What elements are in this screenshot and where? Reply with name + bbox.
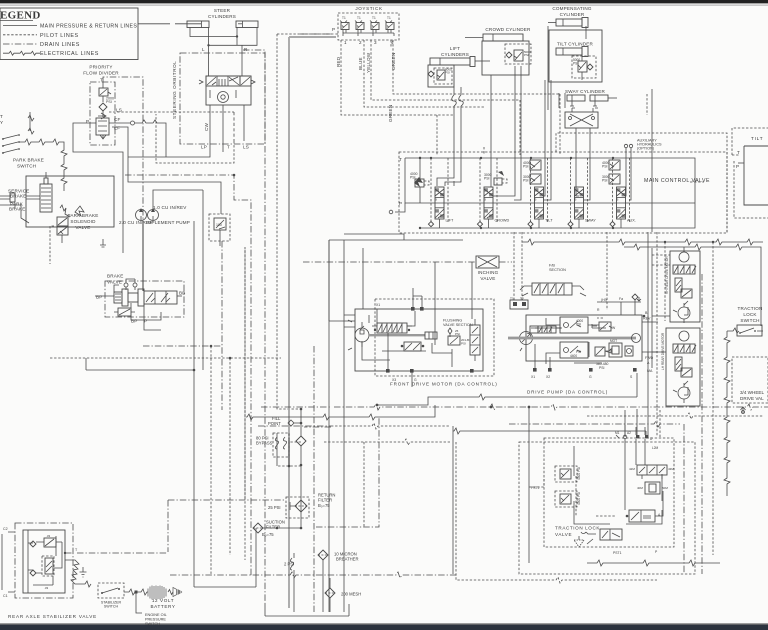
crowd cylinder label: [485, 27, 531, 32]
svg-text:P: P: [144, 319, 147, 324]
svg-text:REAR AXLE STABILIZER VALVE: REAR AXLE STABILIZER VALVE: [8, 614, 97, 619]
svg-text:TILT CYLINDER: TILT CYLINDER: [557, 42, 594, 47]
steer cylinders label: [208, 8, 236, 19]
tilt lock solid box: [734, 146, 768, 218]
node LS: [98, 108, 122, 120]
LH motor top circle: [679, 331, 689, 341]
svg-text:LIFT: LIFT: [446, 219, 454, 223]
pilot wire blue: [364, 40, 484, 107]
svg-text:MAIN CONTROL VALVE: MAIN CONTROL VALVE: [644, 178, 710, 184]
implement pump labels: [119, 205, 190, 225]
traction top ports: [615, 431, 659, 450]
inching valve: [476, 256, 499, 281]
svg-text:P: P: [399, 201, 402, 206]
svg-text:CF: CF: [114, 117, 121, 122]
svg-text:SWITCH: SWITCH: [145, 622, 160, 626]
svg-text:SWITCH: SWITCH: [104, 605, 119, 609]
engine oil pressure switch: [136, 594, 167, 627]
compensating cyl wire: [548, 26, 586, 110]
svg-text:DRIVE VAL: DRIVE VAL: [740, 396, 764, 401]
svg-text:GREEN: GREEN: [388, 105, 393, 122]
svg-text:T1: T1: [387, 16, 391, 20]
svg-text:T1: T1: [372, 16, 376, 20]
vertical dashed x222 x211 x230: [211, 241, 245, 575]
pump internal wires: [535, 317, 606, 368]
joystick internal manifold: [300, 27, 394, 36]
svg-text:X3: X3: [392, 378, 396, 382]
PST1 P labels: [613, 550, 658, 555]
svg-text:CW: CW: [204, 122, 209, 131]
MCV spool SWAY: [568, 158, 596, 228]
priority flow divider dashed box: [90, 82, 115, 145]
T rail: [405, 157, 695, 203]
drain arrow: [100, 239, 106, 247]
solid wire x529 down: [490, 406, 531, 563]
svg-text:A2: A2: [627, 431, 631, 435]
sway lock valve X box: [565, 108, 598, 200]
lift cylinder: [430, 57, 490, 67]
lift lock valve box: [428, 65, 454, 87]
drive pump solid box: [526, 315, 642, 361]
long dashdot wire y425 right: [509, 421, 684, 574]
pump to brake valve main line: [142, 221, 144, 291]
3/4 wheel drive valve dashed box: [732, 357, 768, 414]
wires into tank: [276, 433, 291, 529]
svg-text:PRIORITY: PRIORITY: [89, 65, 112, 70]
wire pump suction bottom: [194, 528, 256, 587]
traction strainer triangle: [574, 536, 584, 547]
wire T down from orbitrol: [125, 114, 251, 250]
brake valve label: [107, 274, 124, 285]
P rail: [389, 158, 695, 214]
priority flow divider label: [83, 65, 119, 76]
compensating cylinder: [548, 18, 588, 28]
svg-text:B: B: [484, 198, 486, 202]
service brake label: [8, 189, 29, 199]
park brake solenoid valve label: [67, 213, 98, 230]
svg-text:Fa: Fa: [619, 297, 623, 301]
legend pilot line: [3, 34, 37, 36]
electrical horizontals under MCV: [522, 239, 763, 245]
svg-text:SWITCH: SWITCH: [17, 164, 36, 169]
flushing valve box: [448, 336, 471, 346]
stabilizer solid box: [23, 530, 65, 593]
svg-text:VALVE: VALVE: [480, 276, 495, 281]
wire EF down: [112, 127, 221, 246]
dashed wires right of pump: [657, 232, 713, 574]
drive pump shaft: [508, 334, 641, 343]
stabilizer T wire dashdot: [64, 552, 168, 554]
legend drain line: [3, 43, 37, 45]
pilot wire red: [341, 40, 454, 115]
return filter: [268, 493, 335, 519]
tilt cylinder: [556, 47, 588, 57]
svg-text:BB: BB: [179, 291, 186, 296]
stub wires top of traction area: [616, 410, 660, 438]
wire steer R down: [241, 45, 243, 76]
legend electrical line: [3, 51, 40, 55]
wire CF solid right: [109, 120, 166, 157]
svg-text:YELLOW: YELLOW: [366, 52, 371, 73]
pump top labels: [597, 294, 641, 315]
tilt pair to MCV: [544, 80, 552, 200]
svg-text:PSI: PSI: [106, 100, 112, 104]
svg-text:CROWD: CROWD: [495, 219, 510, 223]
bottom black bar: [0, 623, 768, 630]
svg-text:MAIN PRESSURE & RETURN LINES: MAIN PRESSURE & RETURN LINES: [40, 24, 137, 30]
front drive motor dashed box: [375, 299, 494, 376]
wires into front motor left: [329, 240, 355, 327]
svg-text:VALVE SECTION: VALVE SECTION: [443, 323, 473, 327]
svg-text:TILT: TILT: [751, 136, 763, 141]
wire P left: [73, 123, 123, 253]
dashed wire x364: [363, 442, 365, 527]
svg-text:T: T: [100, 78, 103, 83]
svg-text:4500 PSI: 4500 PSI: [577, 467, 581, 480]
pilot color labels: [336, 52, 396, 73]
long dash wire y416: [587, 413, 763, 419]
compensating cylinder label: [552, 6, 592, 17]
LH rear drive motor box: [661, 328, 700, 406]
wire motor top: [413, 262, 472, 345]
drive pump circle: [520, 331, 533, 351]
svg-text:T: T: [399, 157, 402, 162]
implement pump circles: [136, 190, 204, 221]
traction inner dashed box: [544, 438, 674, 547]
svg-text:DRIVE PUMP (DA CONTROL): DRIVE PUMP (DA CONTROL): [527, 390, 608, 395]
svg-text:X1: X1: [531, 375, 535, 379]
tilt cylinder label: [557, 42, 594, 47]
electrical wire from switch: [19, 139, 67, 191]
svg-text:BRAKE: BRAKE: [9, 207, 26, 212]
svg-text:PRESSURE: PRESSURE: [145, 618, 166, 622]
svg-text:PILOT LINES: PILOT LINES: [40, 33, 79, 39]
traction relief 2: [555, 491, 581, 507]
traction relief 1: [555, 466, 581, 482]
sway cylinders: [567, 95, 617, 108]
svg-text:BATTERY: BATTERY: [151, 604, 176, 609]
vertical solid x194 x203: [194, 190, 203, 587]
F/B section spool: [520, 283, 586, 296]
RH motor spool: [673, 265, 696, 274]
svg-text:STEERING ORBITROL: STEERING ORBITROL: [172, 61, 177, 119]
svg-text:4400: 4400: [570, 354, 577, 358]
svg-text:X2: X2: [546, 375, 550, 379]
svg-text:P: P: [332, 27, 335, 32]
svg-text:TRACTION: TRACTION: [737, 306, 762, 311]
svg-text:LIFT: LIFT: [450, 46, 460, 51]
MCV inlet relief 4000psi: [410, 157, 429, 229]
svg-text:RH REAR DRIVE MOTOR: RH REAR DRIVE MOTOR: [665, 256, 669, 294]
relief valve 2000 PSI: [99, 88, 114, 104]
RH rear drive motor box: [665, 251, 700, 322]
pump servo spool: [530, 326, 562, 333]
svg-text:EGEND: EGEND: [0, 10, 41, 22]
svg-text:FLOW DIVIDER: FLOW DIVIDER: [83, 71, 119, 76]
svg-text:STEER: STEER: [214, 8, 231, 13]
orifice component right of pump: [209, 214, 230, 241]
C2 C1 labels: [2, 527, 15, 598]
svg-text:M1: M1: [615, 431, 620, 435]
tilt comp valve dashed box: [572, 56, 596, 80]
crowd cylinder: [465, 34, 523, 41]
svg-text:40M: 40M: [637, 486, 643, 490]
joystick label: [355, 6, 383, 11]
svg-text:VALVE: VALVE: [107, 280, 122, 285]
svg-text:100: 100: [216, 223, 222, 227]
svg-text:TRACTION LOCK: TRACTION LOCK: [555, 526, 600, 531]
svg-text:4: 4: [391, 40, 394, 45]
horizontal dashdot y346: [143, 345, 222, 348]
svg-text:T: T: [737, 150, 740, 155]
F/B section label: [549, 264, 566, 273]
stabilizer wire to switch electrical: [65, 560, 91, 587]
legend main pressure line: [3, 25, 37, 27]
svg-text:L2M: L2M: [652, 446, 659, 450]
svg-text:50M: 50M: [662, 486, 668, 490]
joystick T drain lines: [243, 50, 265, 604]
svg-text:PSI: PSI: [576, 322, 581, 326]
front motor main spool: [372, 323, 412, 333]
MCV label: [644, 178, 710, 184]
green pilot label 2: [388, 105, 393, 122]
svg-text:RED: RED: [336, 56, 341, 67]
MCV crowd compensator: [484, 171, 507, 185]
electrical wire top: [28, 112, 34, 134]
dashdot wire y427 left: [258, 425, 331, 427]
auxiliary hydraulics label: [624, 139, 662, 201]
svg-text:VALVE: VALVE: [75, 225, 90, 230]
joystick dashed box: [338, 13, 399, 40]
long dashed wire y442: [324, 439, 657, 583]
svg-text:P: P: [736, 164, 739, 169]
electrical horizontal second: [624, 244, 761, 326]
flushing relief: [448, 328, 460, 337]
solid wire y417: [246, 405, 435, 420]
svg-text:EF: EF: [114, 126, 120, 131]
svg-text:BRAKE: BRAKE: [10, 194, 27, 199]
MCV spool AUX.: [610, 158, 636, 228]
traction lock valve label: [555, 526, 600, 538]
front drive motor label: [390, 382, 498, 387]
svg-text:.33: .33: [46, 534, 51, 538]
park brake switch: [13, 158, 44, 169]
svg-text:PSI: PSI: [461, 342, 466, 346]
MCV tilt compensators: [523, 160, 541, 184]
svg-text:PSI: PSI: [455, 332, 460, 336]
stabilizer dashdot box: [15, 523, 73, 598]
svg-text:R: R: [244, 47, 248, 52]
battery: [124, 586, 182, 610]
node L R labels: [202, 47, 248, 52]
traction internal wires: [574, 439, 662, 524]
front motor circle: [348, 320, 369, 350]
steering orbitrol dashed box: [172, 53, 265, 144]
svg-text:CYLINDER: CYLINDER: [560, 12, 585, 17]
stabilizer switch: [98, 583, 124, 609]
svg-text:PSI: PSI: [523, 179, 529, 183]
svg-text:ENGINE OIL: ENGINE OIL: [145, 613, 167, 617]
vertical drain dashdot x314: [313, 346, 315, 612]
traction solenoid valve: [626, 491, 663, 522]
wire elec to solenoid: [60, 205, 84, 217]
T label: [75, 548, 78, 552]
brake valve dash-dot box: [105, 281, 184, 317]
svg-text:SOLENOID: SOLENOID: [70, 219, 96, 224]
svg-text:.33: .33: [44, 586, 49, 590]
svg-text:B₀=75: B₀=75: [262, 532, 274, 537]
svg-text:B: B: [435, 198, 437, 202]
pump bottom ports: [531, 368, 637, 379]
tank: [265, 604, 349, 616]
horizontal solid y370: [86, 358, 195, 371]
solid wire y426: [331, 423, 646, 574]
front motor bottom ports: [386, 369, 474, 382]
svg-text:T: T: [227, 145, 230, 150]
svg-text:BYPASS: BYPASS: [256, 441, 273, 446]
joystick valve 4: [385, 16, 394, 33]
solid wire y405-397 step: [377, 373, 637, 405]
breather: [318, 550, 359, 612]
pump relief 4400 bottom: [560, 342, 588, 358]
svg-text:CYLINDERS: CYLINDERS: [441, 52, 469, 57]
check diamond top: [296, 408, 306, 529]
2 psi: [284, 553, 294, 612]
svg-text:PARK BRAKE: PARK BRAKE: [13, 158, 44, 163]
svg-text:25 PSI: 25 PSI: [268, 505, 281, 510]
svg-text:JOYSTICK: JOYSTICK: [355, 6, 383, 11]
vertical solid wires mid: [329, 240, 363, 612]
svg-text:TILT: TILT: [545, 219, 553, 223]
svg-text:C2: C2: [3, 527, 8, 531]
svg-text:SWAY CYLINDER: SWAY CYLINDER: [565, 89, 606, 94]
svg-text:LH REAR DRIVE MOTOR: LH REAR DRIVE MOTOR: [661, 332, 665, 370]
svg-text:SWAY: SWAY: [585, 219, 596, 223]
legend box: [0, 8, 138, 60]
joystick port numbers: [344, 40, 394, 45]
orbitrol port lines down: [210, 105, 244, 141]
switch contacts: [2, 134, 20, 154]
svg-text:L: L: [202, 47, 205, 52]
svg-text:G: G: [589, 375, 592, 379]
svg-text:1: 1: [344, 40, 347, 45]
svg-text:200 MESH: 200 MESH: [341, 592, 361, 597]
long dashdot wire y407: [261, 404, 768, 410]
svg-text:42M: 42M: [629, 467, 635, 471]
PST2 label: [529, 477, 544, 490]
wire steer L down: [207, 28, 209, 77]
svg-text:PSI: PSI: [599, 366, 605, 370]
wire T drain dashdot up: [103, 77, 143, 281]
pilot wire yellow: [371, 40, 520, 100]
svg-text:SECTION: SECTION: [549, 268, 566, 272]
MCV spool CROWD: [477, 158, 509, 228]
steer cylinder right: [236, 21, 258, 28]
wire steer cyl rod side: [190, 28, 238, 38]
front motor internal wires: [362, 309, 452, 387]
svg-text:MOT: MOT: [610, 339, 617, 343]
svg-text:PSI: PSI: [573, 62, 578, 66]
svg-text:3: 3: [374, 40, 377, 45]
svg-text:(HI): (HI): [601, 298, 607, 302]
LH motor mid valves: [675, 357, 692, 377]
svg-text:B: B: [575, 198, 577, 202]
node T: [100, 78, 103, 89]
svg-text:G: G: [414, 378, 417, 382]
horizontal dashed y358: [50, 357, 281, 360]
park brake solenoid valve: [50, 217, 68, 264]
flushing valve label: [443, 319, 473, 327]
svg-text:LS: LS: [243, 145, 249, 150]
RH motor mid valves: [675, 278, 692, 298]
tilt lock dashed box: [732, 128, 768, 155]
svg-text:LOCK: LOCK: [743, 312, 757, 317]
svg-text:B: B: [535, 198, 537, 202]
vertical main line from brake valve down: [144, 304, 161, 330]
svg-text:AUX.: AUX.: [627, 219, 636, 223]
brake valve spool assembly: [95, 279, 186, 324]
svg-text:PSI: PSI: [576, 350, 581, 354]
traction lock valve symbol: [581, 529, 622, 544]
svg-text:1.0 CU IN/REV: 1.0 CU IN/REV: [153, 205, 187, 210]
200 mesh strainer: [325, 578, 361, 612]
svg-text:BP: BP: [96, 295, 103, 300]
top black bar: [0, 0, 768, 6]
joystick valve 2: [355, 16, 364, 33]
svg-text:FILTER: FILTER: [318, 498, 332, 503]
svg-text:T: T: [0, 114, 3, 119]
drive pump label: [527, 390, 608, 395]
svg-text:BP: BP: [131, 319, 138, 324]
3/4 wheel drive valve label: [740, 390, 764, 401]
pump lower boxes: [595, 339, 633, 357]
svg-text:4500 PSI: 4500 PSI: [577, 492, 581, 505]
orbitrol valve body: [199, 76, 255, 105]
svg-text:PSI: PSI: [445, 71, 450, 75]
F/B ports T1 T2: [510, 297, 528, 309]
pump control valve W: [592, 322, 616, 331]
wire x249 x253 dashes: [245, 250, 251, 577]
inching valve drain line: [303, 261, 512, 263]
traction bottom electrical: [587, 560, 724, 566]
svg-text:T1: T1: [342, 16, 346, 20]
svg-text:POINT: POINT: [268, 421, 281, 426]
front motor right spool vertical: [470, 319, 480, 361]
stabilizer label: [8, 614, 97, 619]
svg-text:ELECTRICAL LINES: ELECTRICAL LINES: [40, 51, 99, 57]
stabilizer internals: [28, 530, 62, 593]
ground symbol: [80, 567, 87, 577]
svg-text:PSI: PSI: [602, 179, 608, 183]
svg-text:GREEN: GREEN: [391, 53, 396, 70]
svg-text:DRAIN LINES: DRAIN LINES: [40, 42, 80, 48]
sway cylinder label: [565, 89, 606, 94]
CW label: [204, 122, 209, 131]
LH motor spool: [673, 344, 696, 353]
pilot cap drops MCV: [437, 94, 704, 182]
pump right labels: [643, 311, 654, 373]
front motor lower spool: [401, 342, 425, 351]
svg-text:B: B: [617, 198, 619, 202]
lift wires down: [437, 65, 463, 186]
front motor shaft: [369, 332, 437, 339]
MCV aux compensators: [602, 160, 620, 184]
RH motor top circle: [679, 247, 689, 262]
park brake label: [9, 202, 26, 212]
traction shuttle spool: [629, 465, 674, 479]
pilot wire joystick P dashed: [277, 34, 332, 409]
crowd lock valve box: [482, 41, 531, 75]
